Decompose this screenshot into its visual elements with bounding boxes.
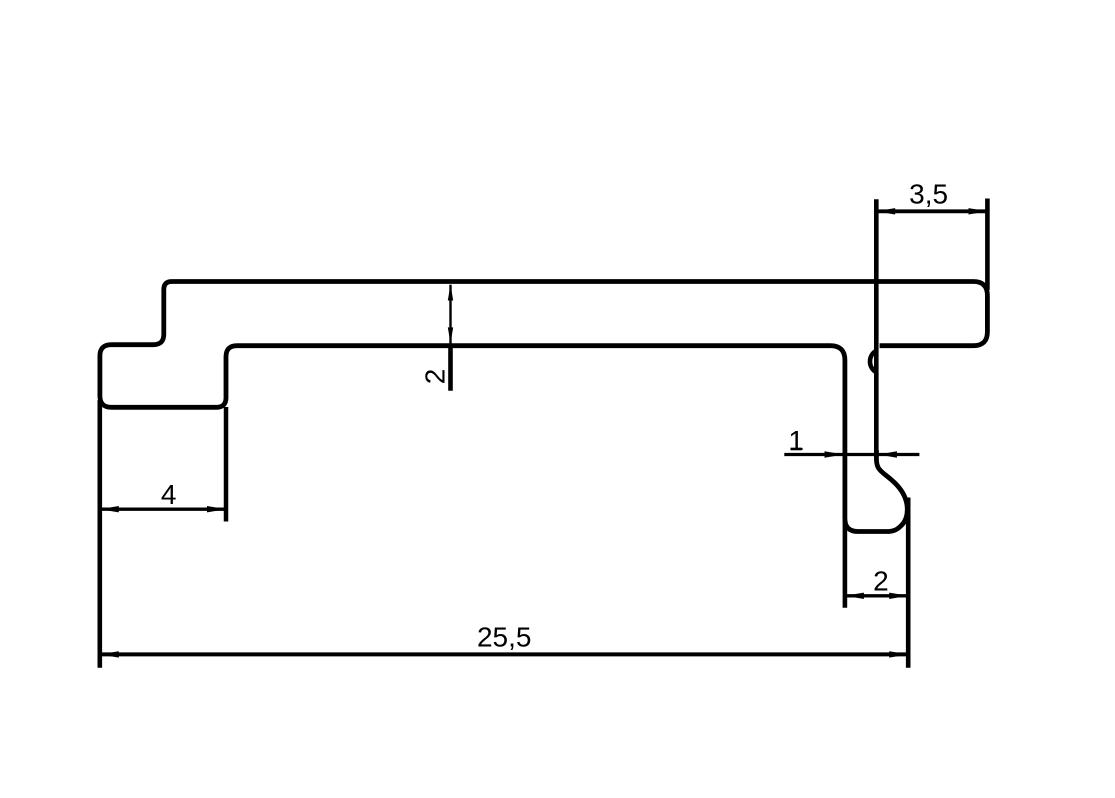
svg-text:25,5: 25,5 <box>477 621 532 652</box>
svg-text:2: 2 <box>419 369 450 385</box>
svg-text:1: 1 <box>788 425 804 456</box>
svg-text:4: 4 <box>161 479 177 510</box>
svg-text:2: 2 <box>873 566 889 597</box>
svg-text:3,5: 3,5 <box>909 178 948 209</box>
